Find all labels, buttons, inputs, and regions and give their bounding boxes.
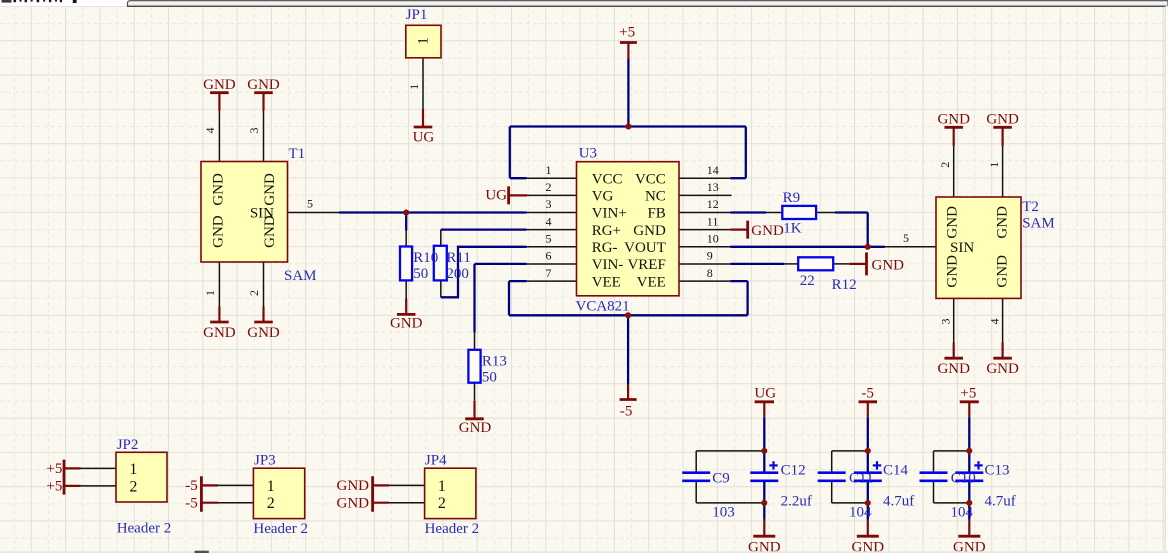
svg-text:SAM: SAM: [1022, 216, 1055, 232]
svg-text:GND: GND: [337, 478, 370, 494]
svg-text:GND: GND: [211, 173, 227, 206]
svg-text:GND: GND: [203, 325, 236, 341]
svg-text:6: 6: [546, 249, 552, 263]
svg-text:VIN+: VIN+: [592, 206, 627, 222]
svg-text:-5: -5: [861, 386, 874, 402]
svg-text:GND: GND: [633, 223, 666, 239]
svg-text:VIN-: VIN-: [592, 257, 624, 273]
svg-text:GND: GND: [751, 223, 784, 239]
svg-text:22: 22: [800, 273, 815, 289]
svg-text:GND: GND: [852, 540, 885, 553]
svg-text:104: 104: [951, 505, 974, 521]
svg-text:3: 3: [247, 128, 261, 134]
svg-text:5: 5: [903, 231, 909, 245]
svg-text:C14: C14: [883, 462, 909, 478]
svg-text:2: 2: [546, 180, 552, 194]
svg-text:13: 13: [707, 180, 719, 194]
svg-text:C10: C10: [951, 470, 976, 486]
svg-text:JP2: JP2: [117, 437, 139, 453]
svg-text:3: 3: [939, 319, 953, 325]
svg-text:3: 3: [546, 197, 552, 211]
svg-text:GND: GND: [203, 77, 236, 93]
svg-text:VOUT: VOUT: [624, 240, 666, 256]
svg-text:U3: U3: [579, 146, 597, 162]
svg-text:GND: GND: [211, 215, 227, 248]
svg-text:-5: -5: [185, 478, 198, 494]
svg-text:4: 4: [987, 319, 1001, 325]
svg-text:UG: UG: [413, 130, 435, 146]
svg-text:12: 12: [707, 197, 719, 211]
svg-text:11: 11: [707, 214, 719, 228]
svg-text:-5: -5: [620, 403, 633, 419]
svg-text:UG: UG: [485, 188, 507, 204]
svg-text:C11: C11: [849, 470, 873, 486]
svg-text:T1: T1: [289, 146, 306, 162]
svg-text:GND: GND: [986, 361, 1019, 377]
svg-text:R11: R11: [446, 250, 470, 266]
svg-text:FB: FB: [647, 206, 665, 222]
svg-text:T2: T2: [1022, 199, 1039, 215]
svg-text:VCA821: VCA821: [576, 299, 630, 315]
svg-text:R12: R12: [832, 277, 857, 293]
svg-text:JP3: JP3: [254, 453, 276, 469]
svg-text:VREF: VREF: [627, 257, 665, 273]
svg-text:SAM: SAM: [284, 268, 317, 284]
svg-text:-5: -5: [185, 495, 198, 511]
svg-text:GND: GND: [995, 255, 1011, 288]
svg-text:2: 2: [438, 495, 446, 512]
svg-text:R13: R13: [482, 354, 507, 370]
svg-text:C12: C12: [781, 462, 806, 478]
svg-text:1: 1: [267, 478, 275, 495]
svg-text:Header 2: Header 2: [253, 521, 308, 537]
svg-text:GND: GND: [937, 361, 970, 377]
svg-text:4: 4: [546, 214, 552, 228]
svg-text:Header 2: Header 2: [425, 521, 480, 537]
svg-text:1: 1: [438, 478, 446, 495]
svg-text:NC: NC: [645, 189, 666, 205]
svg-text:C9: C9: [712, 470, 730, 486]
svg-text:5: 5: [307, 197, 313, 211]
svg-text:5: 5: [546, 232, 552, 246]
svg-text:GND: GND: [945, 255, 961, 288]
svg-text:GND: GND: [748, 540, 781, 553]
svg-text:2: 2: [247, 290, 261, 296]
svg-text:10: 10: [707, 232, 719, 246]
svg-text:GND: GND: [262, 215, 278, 248]
svg-text:1K: 1K: [783, 220, 802, 236]
svg-text:2: 2: [938, 162, 952, 168]
svg-text:200: 200: [446, 266, 469, 282]
svg-text:4.7uf: 4.7uf: [985, 493, 1016, 509]
svg-text:9: 9: [707, 249, 713, 263]
svg-text:VEE: VEE: [637, 274, 666, 290]
svg-text:Header 2: Header 2: [117, 521, 172, 537]
svg-text:8: 8: [707, 266, 713, 280]
svg-text:VCC: VCC: [635, 171, 666, 187]
svg-text:UG: UG: [754, 386, 776, 402]
svg-text:GND: GND: [945, 206, 961, 239]
svg-text:1: 1: [416, 37, 432, 45]
svg-text:2: 2: [129, 478, 137, 495]
svg-text:4.7uf: 4.7uf: [883, 493, 914, 509]
svg-text:+5: +5: [46, 478, 62, 494]
svg-text:2.2uf: 2.2uf: [781, 493, 812, 509]
svg-text:GND: GND: [995, 206, 1011, 239]
svg-text:JP4: JP4: [425, 453, 447, 469]
svg-text:RG-: RG-: [592, 240, 618, 256]
svg-text:GND: GND: [390, 315, 423, 331]
svg-text:VEE: VEE: [592, 274, 621, 290]
svg-text:1: 1: [203, 290, 217, 296]
svg-text:14: 14: [707, 163, 719, 177]
svg-text:1: 1: [987, 162, 1001, 168]
svg-text:GND: GND: [953, 540, 986, 553]
svg-text:GND: GND: [262, 173, 278, 206]
svg-text:R10: R10: [413, 250, 438, 266]
svg-text:SIN: SIN: [950, 240, 974, 256]
svg-text:RG+: RG+: [592, 223, 621, 239]
svg-text:GND: GND: [872, 257, 905, 273]
svg-text:GND: GND: [247, 325, 280, 341]
svg-text:1: 1: [546, 163, 552, 177]
svg-text:2: 2: [267, 495, 275, 512]
svg-text:GND: GND: [986, 112, 1019, 128]
svg-text:1: 1: [129, 461, 137, 478]
svg-text:GND: GND: [937, 112, 970, 128]
svg-text:50: 50: [413, 266, 428, 282]
svg-text:+5: +5: [46, 461, 62, 477]
svg-text:R9: R9: [783, 190, 801, 206]
svg-text:VCC: VCC: [592, 171, 623, 187]
svg-text:103: 103: [712, 505, 735, 521]
svg-text:GND: GND: [247, 77, 280, 93]
svg-text:VG: VG: [592, 189, 614, 205]
svg-text:50: 50: [482, 369, 497, 385]
svg-text:C13: C13: [985, 462, 1010, 478]
svg-text:7: 7: [546, 266, 552, 280]
svg-text:104: 104: [849, 505, 872, 521]
svg-text:GND: GND: [459, 420, 492, 436]
svg-text:4: 4: [203, 128, 217, 134]
svg-text:1: 1: [407, 84, 421, 90]
svg-text:GND: GND: [337, 495, 370, 511]
svg-text:JP1: JP1: [406, 7, 428, 23]
svg-text:+5: +5: [960, 386, 976, 402]
svg-text:+5: +5: [619, 25, 635, 41]
